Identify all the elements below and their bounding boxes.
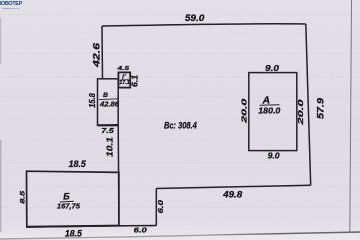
- bottom paper edge shadow line: [0, 232, 360, 239]
- boundary inner vertical: [117, 125, 120, 226]
- boundary top edge: [102, 24, 306, 26]
- svg-text:18.5: 18.5: [65, 228, 83, 238]
- svg-text:20.0: 20.0: [296, 98, 305, 126]
- svg-text:недвижимость юг: недвижимость юг: [2, 8, 20, 10]
- svg-text:В: В: [103, 92, 108, 99]
- svg-text:49.8: 49.8: [222, 189, 242, 199]
- svg-text:42.86: 42.86: [99, 101, 119, 108]
- building B outline: [27, 171, 119, 227]
- svg-text:4.5: 4.5: [116, 66, 130, 72]
- left scan edge smudge upper: [0, 18, 1, 64]
- svg-text:17.1: 17.1: [119, 80, 130, 86]
- building G fraction bar: [120, 79, 129, 81]
- building B fraction bar: [60, 200, 74, 203]
- boundary left vertical: [101, 26, 104, 79]
- boundary right edge: [306, 24, 311, 185]
- svg-text:59.0: 59.0: [185, 13, 204, 23]
- boundary step vertical: [155, 189, 157, 226]
- building V outline: [98, 79, 119, 126]
- svg-text:15.8: 15.8: [88, 93, 97, 108]
- svg-text:6.0: 6.0: [156, 199, 165, 214]
- svg-text:57.9: 57.9: [315, 98, 325, 119]
- svg-text:9.0: 9.0: [268, 151, 281, 160]
- building A outline: [249, 73, 297, 151]
- boundary bottom short edge: [119, 225, 156, 227]
- building V fraction bar: [99, 98, 118, 101]
- svg-text:Б: Б: [63, 192, 70, 202]
- svg-text:18.5: 18.5: [69, 159, 86, 169]
- svg-text:9.0: 9.0: [265, 63, 279, 73]
- right page fold line: [350, 0, 352, 233]
- svg-text:6.0: 6.0: [134, 225, 148, 234]
- svg-text:42.6: 42.6: [91, 42, 101, 69]
- svg-text:180.0: 180.0: [258, 105, 280, 115]
- building G outline: [118, 72, 130, 87]
- svg-text:10.1: 10.1: [105, 137, 115, 157]
- building V bottom edge thickening: [98, 124, 119, 126]
- left scan edge smudge lower: [0, 140, 1, 232]
- building A fraction bar: [260, 104, 280, 107]
- paper noise: [0, 0, 1, 1]
- svg-text:167,75: 167,75: [57, 204, 80, 211]
- svg-text:Вс: 308.4: Вс: 308.4: [164, 120, 197, 130]
- svg-text:7.5: 7.5: [101, 126, 114, 135]
- svg-text:НОВОТЕР: НОВОТЕР: [0, 1, 23, 7]
- svg-text:6.1: 6.1: [131, 74, 140, 87]
- svg-text:20.0: 20.0: [240, 97, 249, 124]
- boundary bottom-right edge: [156, 185, 310, 188]
- svg-text:8.5: 8.5: [19, 191, 26, 204]
- building B bottom edge thickening: [27, 226, 119, 227]
